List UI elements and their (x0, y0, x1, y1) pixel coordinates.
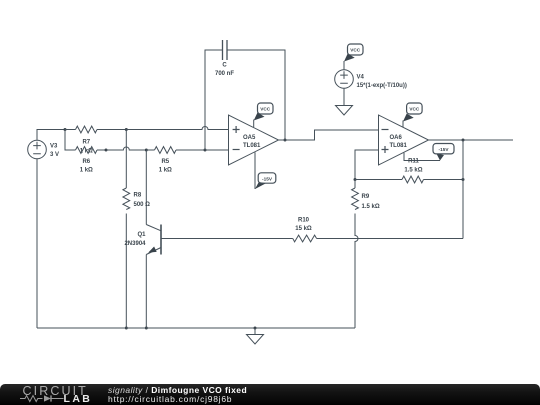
OA5 VCC flag (254, 113, 265, 121)
OA5 minus pin mark (233, 149, 240, 151)
node J junction (emitter-rail) (145, 327, 148, 330)
resistor R5 (155, 147, 177, 154)
wire OA6 plus input (355, 150, 379, 180)
svg-text:LAB: LAB (64, 393, 93, 405)
wire V3 bottom (36, 159, 38, 328)
svg-text:R6: R6 (82, 159, 90, 165)
wire node D to R5 (146, 149, 154, 151)
svg-text:V4: V4 (357, 75, 365, 81)
R8 label (134, 193, 151, 208)
V3 label (50, 144, 59, 158)
svg-text:OA5: OA5 (243, 135, 256, 141)
resistor R9 (352, 188, 359, 210)
node B junction (125, 128, 128, 131)
wire base line (hop over R9 wire) (317, 238, 463, 240)
svg-text:VCC: VCC (350, 48, 361, 53)
OA6 plus pin mark (382, 146, 389, 153)
OA5 -15V flag (255, 182, 266, 189)
footer bar (0, 384, 540, 405)
wire cap left riser (205, 50, 223, 150)
CircuitLab logo (0, 384, 100, 405)
OA6 -15V pin wire (404, 153, 440, 161)
OA6 minus pin mark (382, 129, 389, 131)
wire node A down to R6 (65, 130, 76, 151)
voltage source V3 (28, 140, 47, 159)
wire node E to OA5 minus input (205, 149, 229, 151)
wire R6 to node C (97, 149, 106, 151)
wire OA5 output to OA6 minus input (279, 130, 379, 140)
node L junction (ground tap) (254, 327, 257, 330)
svg-text:VCC: VCC (260, 107, 271, 112)
transistor Q1 (146, 225, 161, 255)
V4 label (357, 75, 407, 89)
wire Q1 collector up to node D (145, 150, 147, 225)
svg-text:15*(1-exp(-T/10u)): 15*(1-exp(-T/10u)) (357, 83, 407, 89)
resistor R6 (76, 147, 97, 154)
node F junction (feedback to output) (284, 139, 287, 142)
svg-text:R8: R8 (134, 193, 142, 199)
wire output down right side (462, 140, 464, 239)
op-amp OA5 (229, 115, 279, 165)
wire V3 top to node A (37, 130, 65, 141)
wire V4 bottom (343, 88, 345, 105)
wire node A to R7 (65, 129, 76, 131)
node G junction (354, 178, 357, 181)
wire cap right to output riser (227, 50, 285, 140)
wire V4 top (343, 61, 345, 70)
R10 label (295, 218, 312, 232)
OA5 -15V pin wire (254, 152, 256, 189)
svg-text:C: C (222, 63, 227, 69)
footer title (108, 385, 247, 395)
V4 VCC flag (344, 54, 355, 62)
node E junction (cap tap) (204, 149, 207, 152)
wire R11 to node H (424, 179, 464, 181)
wire bottom rail (37, 327, 355, 329)
svg-text:R7: R7 (82, 140, 90, 146)
svg-text:-15V: -15V (262, 176, 273, 181)
OA6 label (390, 135, 408, 149)
OA5 label (243, 135, 261, 149)
R7 label (80, 140, 93, 155)
svg-text:R10: R10 (298, 218, 310, 224)
svg-text:TL081: TL081 (390, 143, 408, 149)
Q1 label (124, 232, 146, 247)
resistor R8 (123, 188, 130, 210)
OA6 VCC flag (403, 114, 414, 122)
voltage source V4 (335, 70, 354, 89)
node H junction (462, 178, 465, 181)
wire R10 to Q1 base (161, 238, 293, 240)
R11 label (404, 159, 422, 174)
wire node B down to R8 (125, 130, 127, 189)
svg-text:1.5 kΩ: 1.5 kΩ (362, 204, 380, 210)
svg-text:-15V: -15V (439, 147, 450, 152)
node C junction (105, 149, 108, 152)
R6 label (80, 159, 93, 173)
svg-text:2N3904: 2N3904 (124, 241, 146, 247)
wire node G to R9 (354, 180, 356, 189)
wire R7 to node B (97, 129, 126, 131)
svg-text:15 kΩ: 15 kΩ (295, 226, 312, 232)
svg-text:VCC: VCC (409, 107, 420, 112)
svg-text:700 nF: 700 nF (215, 71, 234, 77)
wire Q1 emitter to bottom rail (145, 255, 147, 329)
wire OA6 output (429, 139, 514, 141)
svg-text:500 Ω: 500 Ω (134, 202, 151, 208)
node I junction (output) (462, 139, 465, 142)
wire R5 to node E (176, 149, 205, 151)
svg-text:R11: R11 (408, 159, 419, 165)
svg-text:1 kΩ: 1 kΩ (159, 167, 172, 173)
wire R9 to bottom rail (355, 214, 358, 329)
R5 label (159, 159, 172, 173)
OA6 VCC pin wire (402, 121, 404, 128)
node A junction (64, 128, 67, 131)
svg-text:1 kΩ: 1 kΩ (80, 167, 93, 173)
wire node G to R11 (355, 179, 402, 181)
svg-text:1.5 kΩ: 1.5 kΩ (404, 167, 422, 173)
ground GND1 (247, 328, 264, 344)
ground GND2 (336, 106, 353, 116)
capacitor C (223, 40, 228, 60)
wire R8 to bottom rail (125, 214, 127, 329)
R9 label (362, 194, 380, 210)
svg-text:OA6: OA6 (390, 135, 403, 141)
wire node C to node D (hop over R8 wire) (106, 147, 146, 150)
OA5 VCC pin wire (253, 120, 255, 128)
OA6 -15V flag (437, 154, 445, 161)
op-amp OA6 (379, 115, 429, 165)
svg-text:Q1: Q1 (137, 232, 146, 238)
resistor R11 (402, 176, 424, 183)
svg-text:TL081: TL081 (243, 143, 261, 149)
svg-text:3 V: 3 V (50, 152, 59, 158)
resistor R10 (293, 235, 317, 242)
node K junction (R8-rail) (125, 327, 128, 330)
OA5 plus pin mark (233, 126, 240, 133)
node D junction (145, 149, 148, 152)
resistor R7 (76, 126, 97, 133)
wire node B to OA5 plus input (hop over cap wire) (126, 127, 228, 130)
svg-text:R9: R9 (362, 194, 370, 200)
svg-text:V3: V3 (50, 144, 58, 150)
C label (215, 63, 234, 77)
footer url (108, 394, 232, 404)
svg-text:R5: R5 (161, 159, 169, 165)
